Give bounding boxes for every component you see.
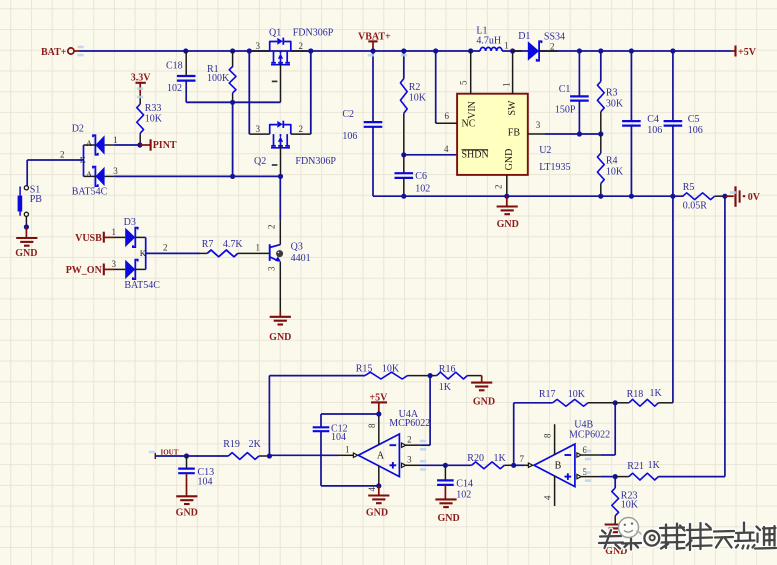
svg-text:MCP6022: MCP6022 bbox=[389, 418, 430, 429]
svg-text:102: 102 bbox=[415, 184, 430, 195]
svg-text:2: 2 bbox=[163, 243, 168, 253]
U4A power pins bbox=[378, 414, 380, 445]
svg-text:7: 7 bbox=[520, 454, 525, 464]
resistor R17 10K bbox=[553, 399, 588, 406]
svg-text:102: 102 bbox=[456, 490, 471, 501]
resistor R4 10K bbox=[600, 134, 602, 153]
wire Q2 drain down bbox=[280, 146, 282, 177]
svg-text:R20: R20 bbox=[467, 453, 484, 464]
minus sign bbox=[565, 454, 572, 456]
junction Q1 pin3 bbox=[247, 48, 252, 53]
svg-text:106: 106 bbox=[688, 125, 703, 136]
svg-text:3: 3 bbox=[112, 259, 117, 269]
ground after R16 bbox=[481, 376, 483, 383]
svg-text:C2: C2 bbox=[342, 109, 354, 120]
wire C5 down to R18 bbox=[672, 126, 674, 403]
svg-text:VUSB: VUSB bbox=[75, 233, 102, 244]
wire feedback up bbox=[268, 376, 270, 456]
junction C12 bottom bbox=[376, 483, 381, 488]
svg-text:Q1: Q1 bbox=[269, 28, 281, 39]
D2 upper diode (pin1) bbox=[95, 135, 104, 154]
wire D2 pin2 bbox=[27, 159, 83, 161]
resistor R21 1K bbox=[615, 476, 629, 478]
svg-text:A: A bbox=[86, 169, 93, 179]
plus sign bbox=[390, 464, 397, 466]
svg-text:3: 3 bbox=[267, 266, 277, 271]
svg-text:104: 104 bbox=[198, 477, 213, 488]
svg-text:4: 4 bbox=[543, 495, 553, 500]
svg-text:2: 2 bbox=[550, 41, 555, 51]
svg-text:1K: 1K bbox=[648, 460, 661, 471]
wire rail to Q2 pin2 bbox=[310, 51, 312, 134]
resistor R23 10K bbox=[614, 477, 616, 488]
svg-text:R21: R21 bbox=[627, 461, 644, 472]
ground below Q3 bbox=[279, 311, 281, 317]
svg-text:1: 1 bbox=[112, 227, 117, 237]
svg-text:4.7uH: 4.7uH bbox=[476, 36, 501, 47]
svg-text:6: 6 bbox=[445, 111, 450, 121]
wire ground rail 0V bbox=[373, 195, 683, 197]
resistor R18 1K bbox=[615, 402, 629, 404]
svg-text:1: 1 bbox=[345, 445, 350, 455]
svg-text:Q3: Q3 bbox=[291, 242, 303, 253]
pin1 Q1 (rotated) bbox=[272, 80, 278, 82]
minus sign bbox=[390, 444, 397, 446]
svg-text:FDN306P: FDN306P bbox=[293, 28, 334, 39]
svg-text:150P: 150P bbox=[555, 105, 576, 116]
junction C14/R20 bbox=[443, 463, 448, 468]
junction Q2 drain bbox=[278, 174, 283, 179]
junction R15/R16 bbox=[428, 373, 433, 378]
junction pin5/R21/R23 bbox=[613, 474, 618, 479]
svg-text:FB: FB bbox=[508, 128, 521, 139]
svg-text:GND: GND bbox=[437, 513, 459, 524]
capacitor C6 102 bbox=[403, 155, 405, 173]
wire Q1 gate down bbox=[280, 63, 282, 103]
svg-text:3: 3 bbox=[536, 120, 541, 130]
ground below U4A bbox=[378, 486, 380, 496]
svg-text:30K: 30K bbox=[606, 99, 624, 110]
svg-text:SW: SW bbox=[507, 100, 518, 116]
resistor R2 10K bbox=[401, 48, 406, 53]
capacitor C18 bbox=[183, 48, 188, 53]
svg-text:GND: GND bbox=[269, 332, 291, 343]
ground below R23 bbox=[605, 525, 626, 533]
svg-text:1K: 1K bbox=[650, 388, 663, 399]
resistor R1 100K bbox=[230, 48, 235, 53]
svg-text:3.3V: 3.3V bbox=[131, 73, 152, 84]
svg-text:4.7K: 4.7K bbox=[223, 239, 244, 250]
wire gate rail bbox=[186, 101, 280, 103]
resistor R33 10K bbox=[139, 93, 141, 104]
U4B pin7 output bbox=[528, 463, 532, 467]
svg-text:BAT+: BAT+ bbox=[41, 47, 67, 58]
svg-text:102: 102 bbox=[167, 83, 182, 94]
svg-text:10K: 10K bbox=[568, 389, 586, 400]
svg-text:C4: C4 bbox=[647, 114, 659, 125]
svg-text:2: 2 bbox=[299, 124, 304, 134]
svg-text:R7: R7 bbox=[202, 239, 214, 250]
svg-text:R16: R16 bbox=[439, 364, 456, 375]
svg-text:C5: C5 bbox=[688, 114, 700, 125]
wire to PINT rail bbox=[232, 102, 234, 176]
resistor R7 4.7K bbox=[200, 252, 207, 254]
resistor R15 10K bbox=[365, 372, 408, 379]
U4B pin6 bbox=[577, 453, 581, 457]
junction C12 top bbox=[376, 411, 381, 416]
svg-text:B: B bbox=[555, 461, 562, 472]
svg-text:R19: R19 bbox=[223, 439, 240, 450]
switch S1 PB bbox=[26, 160, 28, 186]
U4A pin3 bbox=[402, 463, 406, 467]
svg-text:VBAT+: VBAT+ bbox=[358, 32, 391, 43]
svg-text:2: 2 bbox=[494, 185, 504, 190]
wire Q3 emitter bbox=[279, 262, 281, 311]
svg-text:10K: 10K bbox=[145, 113, 163, 124]
svg-text:D2: D2 bbox=[72, 124, 84, 135]
svg-text:100K: 100K bbox=[207, 73, 230, 84]
wire BAT+ rail bbox=[80, 50, 481, 52]
junction R1/C18/gate bbox=[230, 100, 235, 105]
wire R17 feedback bbox=[513, 403, 515, 466]
capacitor C5 106 bbox=[670, 48, 675, 53]
svg-text:4: 4 bbox=[444, 144, 449, 154]
D2 common cathode bbox=[83, 145, 85, 176]
junction R19/R15/pin1 bbox=[267, 453, 272, 458]
node FB junctions bbox=[577, 131, 582, 136]
svg-text:R3: R3 bbox=[606, 88, 618, 99]
watermark dot at Q3 bbox=[276, 250, 283, 257]
svg-text:GND: GND bbox=[176, 508, 198, 519]
junction pin7/R17 bbox=[511, 463, 516, 468]
svg-text:10K: 10K bbox=[382, 364, 400, 375]
svg-text:A: A bbox=[377, 451, 385, 462]
U4A pin1 output bbox=[353, 453, 357, 457]
svg-text:1: 1 bbox=[504, 41, 509, 51]
svg-text:106: 106 bbox=[342, 131, 357, 142]
svg-text:R5: R5 bbox=[683, 182, 695, 193]
svg-text:SHDN: SHDN bbox=[462, 150, 489, 161]
svg-text:R18: R18 bbox=[627, 389, 644, 400]
power 0V symbol bbox=[725, 195, 734, 197]
svg-text:A: A bbox=[86, 138, 93, 148]
junction Q1 pin2 bbox=[308, 48, 313, 53]
wire R16 junction down to pin2 bbox=[429, 376, 431, 446]
capacitor C12 104 bbox=[321, 413, 379, 415]
svg-text:0V: 0V bbox=[748, 192, 761, 203]
op-amp U4B MCP6022 bbox=[534, 444, 575, 487]
svg-text:C6: C6 bbox=[415, 171, 427, 182]
watermark at-sign bbox=[644, 531, 659, 546]
svg-text:10K: 10K bbox=[606, 167, 624, 178]
plus sign bbox=[565, 476, 572, 478]
ground below C14 bbox=[435, 499, 456, 507]
svg-text:106: 106 bbox=[647, 125, 662, 136]
U2 pin2 GND bbox=[506, 175, 508, 196]
junction R17/R18 bbox=[613, 400, 618, 405]
svg-text:R4: R4 bbox=[606, 156, 618, 167]
svg-text:104: 104 bbox=[331, 432, 346, 443]
capacitor C14 102 bbox=[444, 465, 446, 480]
D3 common cathode bbox=[145, 237, 147, 269]
svg-text:2: 2 bbox=[299, 41, 304, 51]
svg-text:VIN: VIN bbox=[467, 101, 478, 119]
svg-text:1K: 1K bbox=[494, 453, 507, 464]
svg-text:NC: NC bbox=[462, 119, 476, 130]
svg-text:BAT54C: BAT54C bbox=[72, 186, 108, 197]
svg-text:4: 4 bbox=[367, 487, 377, 492]
svg-text:C1: C1 bbox=[559, 84, 571, 95]
resistor R19 2K bbox=[228, 453, 259, 460]
svg-text:D3: D3 bbox=[124, 217, 136, 228]
svg-text:10K: 10K bbox=[621, 500, 639, 511]
svg-text:GND: GND bbox=[504, 149, 515, 171]
power VBAT+ bbox=[368, 40, 377, 42]
ground below C13 bbox=[176, 496, 197, 504]
resistor R5 0.05R bbox=[682, 195, 685, 197]
svg-text:1: 1 bbox=[113, 135, 118, 145]
power 3.3V bbox=[136, 82, 146, 84]
junction VBAT+/C2 bbox=[370, 48, 375, 53]
U4B pin5 bbox=[577, 474, 581, 478]
D3 lower diode bbox=[125, 260, 135, 279]
capacitor C13 104 bbox=[186, 456, 188, 469]
svg-text:GND: GND bbox=[366, 508, 388, 519]
U2 pin5 VIN bbox=[468, 48, 473, 53]
svg-text:1K: 1K bbox=[439, 382, 452, 393]
svg-text:1: 1 bbox=[256, 243, 261, 253]
wire PINT rail to Q2 bbox=[114, 175, 280, 177]
capacitor C1 150P bbox=[577, 48, 582, 53]
D3 upper diode bbox=[125, 228, 135, 247]
svg-text:3: 3 bbox=[407, 455, 412, 465]
svg-text:D1: D1 bbox=[518, 31, 530, 42]
svg-text:LT1935: LT1935 bbox=[539, 162, 570, 173]
svg-text:3: 3 bbox=[256, 41, 261, 51]
svg-text:C18: C18 bbox=[166, 61, 183, 72]
svg-text:+5V: +5V bbox=[738, 47, 757, 58]
U2 pin1 SW bbox=[510, 48, 515, 53]
snap marks bbox=[77, 46, 83, 57]
svg-text:GND: GND bbox=[473, 397, 495, 408]
resistor R16 1K bbox=[430, 375, 437, 377]
wire D3 pin2 to R7 bbox=[146, 252, 200, 254]
U4A pin2 bbox=[402, 443, 406, 447]
svg-text:R15: R15 bbox=[356, 364, 373, 375]
svg-text:FDN306P: FDN306P bbox=[295, 156, 336, 167]
op chip U2 LT1935 bbox=[457, 94, 528, 175]
svg-text:U2: U2 bbox=[539, 145, 551, 156]
svg-text:MCP6022: MCP6022 bbox=[569, 429, 610, 440]
svg-text:2: 2 bbox=[267, 225, 277, 230]
U4B power pins bbox=[554, 424, 556, 454]
node PINT bbox=[137, 142, 142, 147]
svg-text:Q2: Q2 bbox=[254, 156, 266, 167]
power +5V bbox=[731, 50, 736, 52]
svg-text:2: 2 bbox=[407, 435, 412, 445]
svg-text:R17: R17 bbox=[539, 389, 556, 400]
capacitor C4 106 bbox=[629, 48, 634, 53]
D2 lower diode (pin3) bbox=[95, 167, 104, 186]
svg-text:R2: R2 bbox=[409, 82, 421, 93]
svg-text:2K: 2K bbox=[249, 439, 262, 450]
ground below S1 bbox=[25, 216, 27, 227]
svg-text:3: 3 bbox=[256, 124, 261, 134]
svg-text:BAT54C: BAT54C bbox=[124, 280, 160, 291]
op-amp U4A MCP6022 bbox=[358, 434, 399, 477]
svg-text:C14: C14 bbox=[456, 479, 473, 490]
junction bbox=[230, 174, 235, 179]
svg-text:PINT: PINT bbox=[153, 140, 177, 151]
svg-text:GND: GND bbox=[497, 219, 519, 230]
svg-text:0.05R: 0.05R bbox=[683, 200, 708, 211]
watermark text strokes bbox=[599, 523, 776, 551]
resistor R3 30K bbox=[598, 48, 603, 53]
node IOUT bbox=[154, 453, 156, 459]
svg-text:5: 5 bbox=[459, 80, 469, 85]
wire SHDN bbox=[401, 152, 406, 157]
svg-text:3: 3 bbox=[113, 166, 118, 176]
wire rail to Q2 pin3 bbox=[248, 51, 250, 134]
svg-text:PW_ON: PW_ON bbox=[66, 265, 103, 276]
svg-text:L1: L1 bbox=[476, 25, 487, 36]
svg-text:1: 1 bbox=[502, 83, 512, 88]
svg-text:PB: PB bbox=[30, 194, 43, 205]
svg-text:+5V: +5V bbox=[369, 392, 388, 403]
U2 pin3 FB bbox=[528, 133, 545, 135]
svg-text:GND: GND bbox=[15, 248, 37, 259]
svg-text:8: 8 bbox=[543, 433, 553, 438]
svg-text:4401: 4401 bbox=[291, 253, 311, 264]
U2 pin6 NC bbox=[433, 48, 438, 53]
capacitor C2 106 bbox=[372, 51, 374, 122]
wire R5 right down to R21 bbox=[724, 196, 726, 476]
svg-text:10K: 10K bbox=[409, 93, 427, 104]
svg-text:8: 8 bbox=[367, 423, 377, 428]
pin1 Q2 (rotated) bbox=[272, 164, 278, 166]
svg-text:2: 2 bbox=[60, 150, 65, 160]
wire Q3 collector bbox=[279, 176, 281, 220]
watermark smiley bbox=[619, 518, 639, 538]
power +5V op-amp bbox=[371, 401, 387, 403]
resistor R20 1K bbox=[445, 464, 471, 466]
